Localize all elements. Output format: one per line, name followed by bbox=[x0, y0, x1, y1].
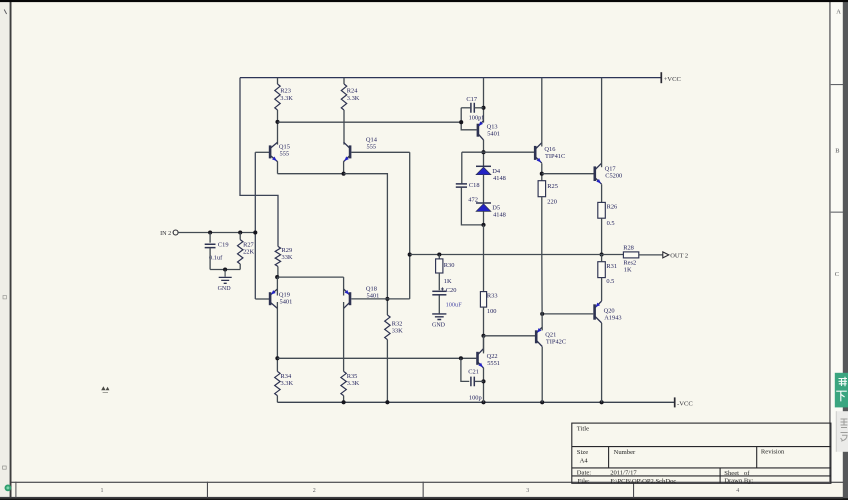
svg-text:Number: Number bbox=[614, 449, 636, 456]
svg-text:Title: Title bbox=[577, 426, 589, 433]
svg-text:2011/7/17: 2011/7/17 bbox=[610, 470, 637, 477]
node rail R32 bbox=[385, 400, 389, 404]
svg-text:0.5: 0.5 bbox=[607, 220, 615, 227]
node tail-feedback cross bbox=[385, 297, 389, 301]
svg-text:100: 100 bbox=[487, 308, 497, 315]
svg-text:3.3K: 3.3K bbox=[281, 380, 294, 387]
svg-text:R26: R26 bbox=[607, 203, 618, 210]
resistor R32 bbox=[385, 315, 390, 340]
svg-text:22K: 22K bbox=[243, 249, 254, 256]
bottom ruler cell separator 0 bbox=[15, 482, 16, 498]
wire bias top run bbox=[462, 151, 535, 153]
svg-text:TIP42C: TIP42C bbox=[546, 338, 566, 345]
svg-text:4: 4 bbox=[736, 488, 739, 494]
svg-text:GND: GND bbox=[218, 286, 232, 292]
wire Q22 base run bbox=[277, 357, 476, 359]
wire C20 bottom lead bbox=[438, 296, 440, 314]
left strip tiny mark top bbox=[4, 10, 6, 15]
wire R26 to rail bbox=[601, 218, 603, 254]
light tab char strokes bbox=[841, 419, 848, 441]
svg-text:Q20: Q20 bbox=[604, 307, 615, 314]
svg-text:R24: R24 bbox=[347, 88, 358, 95]
transistor Q17 bbox=[595, 163, 602, 184]
wire pnp emitter tie bbox=[277, 276, 343, 278]
svg-text:3.3K: 3.3K bbox=[347, 380, 360, 387]
svg-text:Q14: Q14 bbox=[366, 136, 378, 143]
bottom ruler band top line bbox=[12, 482, 844, 483]
svg-text:R30: R30 bbox=[444, 262, 455, 269]
bottom ruler cell separator 1 bbox=[207, 482, 208, 498]
node bias top node bbox=[481, 150, 485, 154]
wire C18 bottom drop bbox=[461, 187, 483, 225]
wire bias to R33 bbox=[483, 225, 485, 292]
wire C17 left lead bbox=[461, 107, 471, 109]
svg-text:Q16: Q16 bbox=[544, 146, 555, 153]
svg-text:A: A bbox=[836, 9, 841, 16]
resistor R26 bbox=[598, 202, 606, 218]
svg-text:C5200: C5200 bbox=[605, 173, 622, 180]
bottom ruler cell separator 2 bbox=[423, 482, 424, 498]
svg-text:3.3K: 3.3K bbox=[280, 95, 293, 102]
wire Q21 base run bbox=[484, 335, 536, 337]
wire Q14 emitter drop bbox=[343, 161, 345, 173]
wire -VCC rail bbox=[277, 401, 674, 403]
svg-text:Q21: Q21 bbox=[545, 331, 556, 338]
svg-text:555: 555 bbox=[280, 150, 290, 157]
wire Q16 collector rise bbox=[541, 78, 543, 147]
node R30 tap bbox=[437, 252, 441, 256]
resistor R34 bbox=[275, 371, 280, 395]
bottom ruler band bottom line bbox=[0, 497, 843, 498]
svg-text:0.5: 0.5 bbox=[606, 278, 614, 285]
capacitor C21 bbox=[471, 377, 474, 387]
svg-text:100uF: 100uF bbox=[446, 301, 463, 308]
node GND tap bbox=[223, 267, 227, 271]
wire Q15 base stub bbox=[255, 151, 269, 153]
diode D5 bbox=[476, 202, 491, 204]
svg-text:D5: D5 bbox=[492, 204, 500, 211]
resistor R30 bbox=[436, 259, 443, 273]
wire Q19 collector drop bbox=[276, 302, 278, 371]
svg-text:D4: D4 bbox=[492, 168, 501, 175]
wire C17 right lead bbox=[474, 107, 483, 109]
svg-text:5401: 5401 bbox=[367, 293, 380, 300]
resistor R27 bbox=[238, 240, 243, 264]
svg-text:C21: C21 bbox=[468, 369, 479, 376]
wire R30 top lead bbox=[438, 255, 440, 259]
svg-text:R34: R34 bbox=[281, 373, 292, 380]
wire Q19 emitter rise bbox=[276, 277, 278, 295]
svg-text:5551: 5551 bbox=[487, 360, 500, 367]
transistor Q22 bbox=[478, 349, 484, 368]
resistor R35 bbox=[341, 371, 346, 395]
svg-text:1K: 1K bbox=[444, 278, 452, 285]
wire Q22 emitter drop bbox=[483, 368, 485, 403]
wire R33 to Q21 base node bbox=[483, 307, 485, 353]
wire Q21 collector drop bbox=[541, 347, 543, 403]
node emitter node bbox=[342, 172, 346, 176]
wire Q16-Q17 base run bbox=[542, 173, 594, 175]
wire R23 top lead bbox=[277, 78, 279, 84]
svg-text:GND: GND bbox=[432, 323, 446, 329]
wire +VCC rail bbox=[240, 77, 661, 79]
power port -VCC bbox=[674, 397, 676, 407]
bottom ruler cell separator 3 bbox=[633, 482, 634, 498]
svg-text:4148: 4148 bbox=[493, 211, 506, 218]
svg-text:1: 1 bbox=[101, 488, 104, 494]
resistor R29 bbox=[275, 246, 280, 266]
wire Q16 emitter drop bbox=[541, 163, 543, 180]
port IN 2 bbox=[173, 230, 178, 235]
wire diff pair emitter tie bbox=[278, 173, 344, 175]
wire IN net bbox=[178, 232, 255, 234]
svg-text:33K: 33K bbox=[392, 328, 403, 335]
wire R32 bottom lead bbox=[386, 340, 388, 403]
left strip tiny mark mid bbox=[3, 296, 6, 299]
svg-text:R33: R33 bbox=[487, 293, 498, 300]
light tab below bbox=[836, 411, 848, 452]
green download tab overlay bbox=[835, 373, 848, 408]
port OUT 2 bbox=[663, 252, 669, 258]
wire R27 bottom lead bbox=[239, 264, 241, 270]
svg-text:Q17: Q17 bbox=[605, 166, 617, 173]
wire Q19 base stub bbox=[255, 298, 269, 300]
svg-text:R27: R27 bbox=[243, 241, 254, 248]
svg-text:R29: R29 bbox=[282, 247, 293, 254]
transistor Q19 bbox=[270, 289, 277, 308]
right sheet border line bbox=[829, 0, 830, 482]
svg-text:File:: File: bbox=[578, 478, 590, 485]
svg-text:A1943: A1943 bbox=[604, 314, 621, 321]
node C21 branch node bbox=[459, 356, 463, 360]
resistor R24 bbox=[341, 84, 346, 110]
right zone ruler strip bbox=[831, 0, 844, 482]
wire Q18 collector drop bbox=[343, 302, 345, 371]
svg-text:B: B bbox=[835, 147, 839, 154]
node Q21 base node bbox=[481, 334, 485, 338]
ground GND (input) bbox=[224, 270, 226, 277]
svg-text:Size: Size bbox=[577, 449, 588, 456]
svg-text:3.3K: 3.3K bbox=[347, 95, 360, 102]
node Q20 base tap bbox=[540, 312, 544, 316]
svg-text:5401: 5401 bbox=[487, 131, 500, 138]
node rail Q21 bbox=[540, 400, 544, 404]
transistor Q18 bbox=[344, 289, 350, 308]
bottom black bar bbox=[0, 498, 848, 500]
node feedback-output tap bbox=[408, 253, 412, 257]
wire Q18 base run bbox=[351, 298, 409, 300]
node rail R35 bbox=[342, 400, 346, 404]
node rail Q20 bbox=[600, 400, 604, 404]
wire Q18 emitter rise bbox=[343, 277, 345, 295]
wire Q14 base run bbox=[351, 151, 409, 153]
wire mirror link to Q13 base bbox=[278, 121, 462, 123]
svg-text:4148: 4148 bbox=[493, 175, 506, 182]
wire C19 bottom lead bbox=[209, 248, 211, 270]
svg-text:220: 220 bbox=[547, 199, 557, 206]
svg-text:2: 2 bbox=[313, 488, 316, 494]
wire C19 top lead bbox=[209, 233, 211, 243]
svg-text:TIP41C: TIP41C bbox=[545, 153, 565, 160]
capacitor C19 bbox=[205, 244, 216, 247]
left sheet border line bbox=[10, 2, 12, 498]
node IN-riser bbox=[253, 230, 257, 234]
node IN-C19 bbox=[208, 230, 212, 234]
svg-text:Q18: Q18 bbox=[366, 286, 377, 293]
green tab char 2 strokes (xia) bbox=[836, 391, 847, 401]
diode D4 bbox=[476, 165, 491, 167]
wire Q22 collector rise bbox=[483, 336, 485, 352]
svg-text:Q15: Q15 bbox=[279, 143, 290, 150]
svg-text:C19: C19 bbox=[218, 242, 229, 249]
svg-text:C18: C18 bbox=[469, 182, 480, 189]
wire tail run to R32 bbox=[344, 174, 388, 315]
node rail Q22 bbox=[481, 400, 485, 404]
wire left feedback drop bbox=[240, 78, 278, 247]
capacitor C20 bbox=[432, 290, 446, 292]
svg-text:Date:: Date: bbox=[577, 470, 591, 477]
node bias bottom node bbox=[481, 223, 485, 227]
svg-text:33K: 33K bbox=[282, 254, 293, 261]
resistor R28 bbox=[623, 252, 638, 258]
wire R35 bottom lead bbox=[343, 396, 345, 403]
title block outer box bbox=[572, 423, 831, 483]
node R23 bottom node bbox=[275, 120, 279, 124]
svg-text:Sheet of: Sheet of bbox=[724, 470, 750, 477]
green tab char 1 strokes bbox=[839, 377, 848, 386]
transistor Q20 bbox=[595, 301, 602, 323]
wire D5 bottom lead bbox=[483, 211, 485, 225]
top black bar bbox=[0, 0, 848, 2]
wire R23 bottom lead bbox=[277, 110, 279, 145]
svg-text:Drawn By:: Drawn By: bbox=[724, 478, 753, 485]
svg-text:R28: R28 bbox=[623, 245, 634, 252]
node output node bbox=[600, 252, 604, 256]
svg-text:F:\PCB\OP\OP2.SchDoc: F:\PCB\OP\OP2.SchDoc bbox=[610, 478, 676, 485]
resistor R31 bbox=[598, 262, 606, 278]
svg-text:IN 2: IN 2 bbox=[160, 230, 171, 237]
green record dot bbox=[5, 485, 12, 492]
svg-text:R32: R32 bbox=[392, 320, 403, 327]
ground GND (zobel) bbox=[432, 314, 446, 320]
svg-text:Q19: Q19 bbox=[279, 291, 290, 298]
right dark app band bbox=[843, 0, 848, 500]
wire R28 to OUT bbox=[639, 254, 663, 256]
wire Q20 collector drop bbox=[601, 323, 603, 402]
left gray app strip bbox=[0, 0, 10, 500]
svg-text:3: 3 bbox=[526, 488, 529, 494]
wire C19-R27 bottom tie bbox=[210, 269, 240, 271]
wire C21 right lead bbox=[475, 380, 484, 382]
svg-text:1K: 1K bbox=[624, 267, 632, 274]
svg-text:R25: R25 bbox=[547, 183, 558, 190]
svg-text:Revision: Revision bbox=[761, 449, 785, 456]
wire R30 to C20 bbox=[438, 273, 440, 290]
svg-text:C17: C17 bbox=[466, 96, 477, 103]
wire feedback riser bbox=[409, 152, 411, 299]
node C21 right node bbox=[481, 379, 485, 383]
wire R27 top lead bbox=[239, 233, 241, 240]
resistor R33 bbox=[480, 292, 486, 308]
svg-text:0.1uf: 0.1uf bbox=[209, 254, 223, 261]
svg-text:555: 555 bbox=[367, 143, 377, 150]
left strip tiny mark bottom bbox=[3, 466, 7, 469]
svg-text:C20: C20 bbox=[446, 287, 457, 294]
transistor Q16 bbox=[535, 143, 542, 163]
wire R29 bottom lead bbox=[277, 266, 279, 277]
wire Q17 emitter drop bbox=[601, 184, 603, 202]
wire R24 top lead bbox=[343, 78, 345, 84]
node Q13 base node bbox=[459, 120, 463, 124]
transistor Q21 bbox=[536, 327, 542, 346]
svg-text:100p: 100p bbox=[469, 394, 482, 401]
svg-text:R23: R23 bbox=[280, 88, 291, 95]
right zone tick 1 bbox=[831, 84, 844, 85]
capacitor C17 bbox=[471, 103, 474, 113]
wire R25-output-Q21 drop bbox=[541, 197, 543, 331]
wire D4-D5 link bbox=[483, 175, 485, 203]
transistor Q13 bbox=[478, 121, 484, 140]
wire C21 left branch bbox=[461, 358, 469, 381]
svg-text:R35: R35 bbox=[347, 373, 358, 380]
svg-text:C: C bbox=[835, 271, 839, 278]
svg-text:Q22: Q22 bbox=[487, 353, 498, 360]
stray mark artifact bbox=[101, 386, 109, 390]
wire Q20 base run bbox=[542, 313, 593, 315]
node Q16 emitter node bbox=[540, 172, 544, 176]
wire R24 bottom lead bbox=[343, 110, 345, 145]
wire input riser to Q15 base bbox=[254, 152, 256, 299]
wire Q13 emitter riser bbox=[483, 78, 485, 123]
svg-text:-VCC: -VCC bbox=[677, 400, 693, 407]
wire C18 top drop bbox=[461, 152, 463, 184]
wire R31 top lead bbox=[601, 255, 603, 262]
node Q19 col node bbox=[275, 356, 279, 360]
svg-text:Res2: Res2 bbox=[623, 260, 636, 267]
power port +VCC bbox=[660, 72, 662, 83]
svg-text:+VCC: +VCC bbox=[664, 76, 682, 83]
wire output rail bbox=[410, 254, 624, 256]
wire R34 bottom lead bbox=[276, 396, 278, 403]
svg-text:R31: R31 bbox=[606, 263, 617, 270]
node IN-R27 bbox=[238, 230, 242, 234]
resistor R25 bbox=[538, 181, 546, 197]
capacitor C18 bbox=[456, 184, 467, 187]
right zone tick 2 bbox=[831, 212, 844, 213]
node R29 bottom node bbox=[275, 275, 279, 279]
wire Q17 collector rise bbox=[601, 78, 603, 168]
wire Q15 emitter drop bbox=[277, 161, 279, 173]
wire Q13 base L bbox=[461, 108, 476, 130]
svg-text:5401: 5401 bbox=[280, 298, 293, 305]
wire R31 to Q20 emitter bbox=[601, 278, 603, 301]
svg-text:OUT 2: OUT 2 bbox=[670, 253, 688, 260]
svg-text:A4: A4 bbox=[580, 458, 589, 465]
resistor R23 bbox=[275, 84, 280, 110]
svg-text:100pf: 100pf bbox=[469, 115, 485, 122]
node C17 right node bbox=[481, 106, 485, 110]
transistor Q14 bbox=[344, 142, 351, 161]
wire Q13 collector drop bbox=[483, 140, 485, 167]
svg-text:Q13: Q13 bbox=[487, 124, 498, 131]
transistor Q15 bbox=[270, 142, 277, 161]
